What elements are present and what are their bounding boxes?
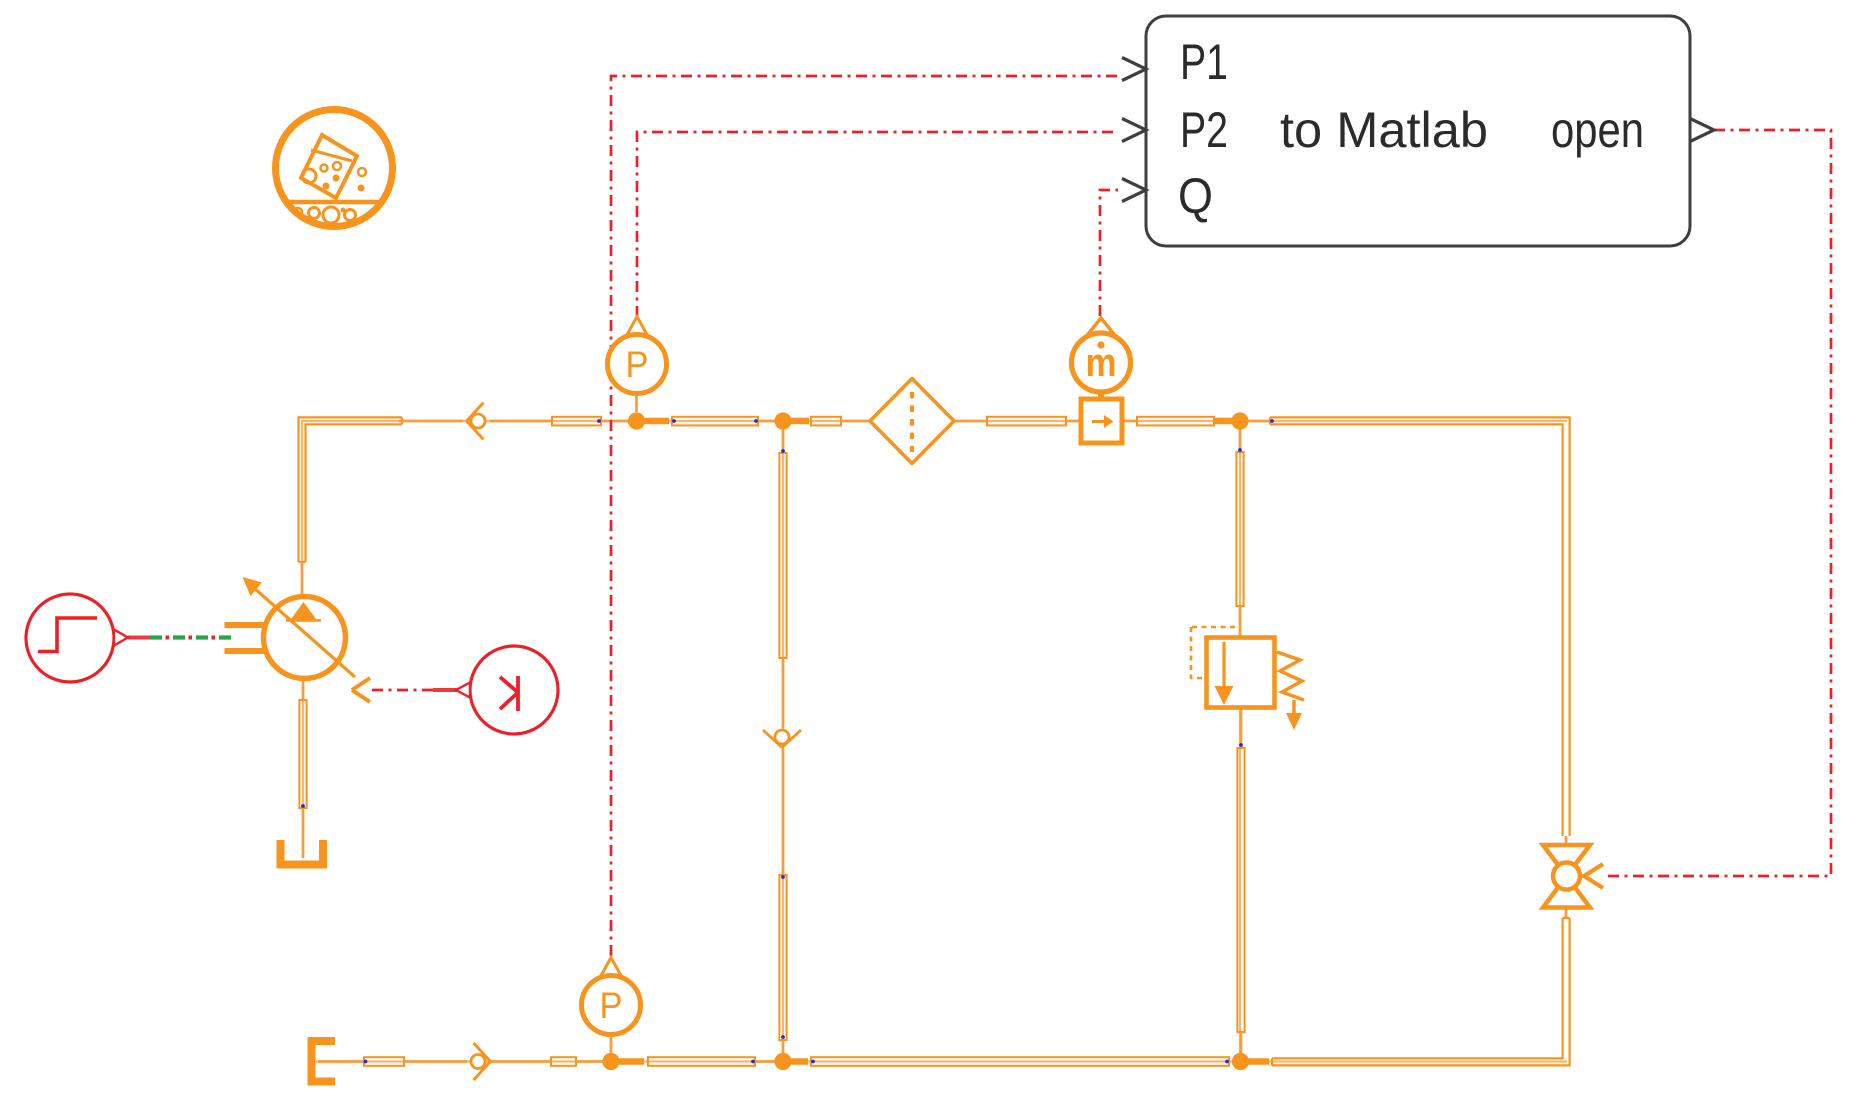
- port dot pump suction: [301, 804, 305, 808]
- wire bottom line thin from tank: [318, 1060, 364, 1063]
- fluid properties icon: [276, 110, 393, 227]
- svg-text:to Matlab: to Matlab: [1280, 102, 1488, 158]
- wire pale centerline relief branch: [1239, 421, 1241, 1061]
- junction node bottom C: [1232, 1053, 1249, 1070]
- input arrow Q: [1122, 179, 1146, 202]
- pipe segment pump suction: [299, 700, 306, 808]
- port dot bottom long pipe right: [1225, 1060, 1229, 1064]
- wire bottom line thick bar 3: [1248, 1058, 1269, 1065]
- pipe segment relief branch lower: [1237, 748, 1244, 1032]
- check valve symbol on top line: [467, 403, 486, 440]
- svg-text:open: open: [1551, 102, 1644, 158]
- wire relief branch stem below top junction: [1239, 429, 1242, 452]
- wire top line thick bar 1: [643, 418, 669, 425]
- wire top line thin segment I: [1247, 420, 1269, 423]
- port dot bottom long pipe left: [811, 1060, 815, 1064]
- port dot top line pipe1 right: [597, 419, 601, 423]
- svg-text:P1: P1: [1180, 34, 1228, 90]
- port dot bottom line pipe3 right: [751, 1060, 755, 1064]
- svg-text:Q: Q: [1178, 168, 1213, 224]
- tank below pump: [281, 840, 324, 865]
- wire pale centerline bottom run: [316, 1060, 1567, 1062]
- wire pump outlet thin to pump: [301, 562, 304, 599]
- port dot middle branch pipe lower top: [781, 875, 785, 879]
- step source block: [26, 594, 128, 682]
- pipe segment middle branch lower: [779, 875, 786, 1040]
- pressure sensor P1 (top): [608, 317, 667, 413]
- junction node top B: [774, 412, 791, 429]
- input arrow P1: [1122, 58, 1146, 81]
- wire middle branch thin bottom: [782, 1040, 785, 1055]
- to Matlab scope block body: [1146, 16, 1690, 246]
- wire signal step to pump green dash: [150, 635, 232, 639]
- output arrow open: [1690, 119, 1714, 142]
- flow rate sensor circle m-dot: [1072, 318, 1131, 392]
- input arrow P2: [1122, 119, 1146, 142]
- pressure sensor P2 (bottom): [582, 958, 641, 1054]
- wire signal K constant to pump red dash-dot: [372, 689, 433, 692]
- wire middle branch thin below check valve: [782, 748, 785, 875]
- port dot top line pipe2 right: [754, 419, 758, 423]
- wire top line thick bar 3: [1214, 418, 1234, 425]
- wire pale centerline top run: [302, 421, 1567, 594]
- wire signal P2 (top pressure sensor to block) red dash-dot: [637, 132, 1118, 317]
- pipe segment bottom line 1: [364, 1057, 404, 1066]
- wire pale centerline middle branch: [782, 421, 784, 1061]
- port dot relief branch top: [1238, 448, 1242, 452]
- pipe segment bottom line 4 long: [811, 1057, 1229, 1066]
- wire pump suction thin into tank: [302, 808, 305, 858]
- junction node bottom A: [602, 1053, 619, 1070]
- wire top-right L-pipe to right column: [1270, 417, 1570, 836]
- pipe segment top line 5: [1137, 417, 1214, 426]
- wire top line thin segment C: [601, 420, 629, 423]
- svg-text:P: P: [600, 985, 623, 1026]
- wire relief branch thin below valve: [1240, 707, 1243, 748]
- flow rate sensor box with arrow: [1081, 390, 1122, 443]
- port dot middle branch top: [781, 449, 785, 453]
- pipe segment top line 1: [552, 417, 601, 426]
- wire pump suction thin upper: [302, 678, 305, 700]
- wire top line thin segment E: [841, 420, 870, 423]
- junction node top C: [1231, 412, 1248, 429]
- wire top line thin segment D: [758, 420, 776, 423]
- pipe segment middle branch upper: [779, 453, 786, 658]
- wire top line thin segment H: [1121, 420, 1137, 423]
- wire bottom-right L-pipe: [1272, 918, 1570, 1065]
- pipe segment top line 3: [811, 417, 841, 426]
- check valve symbol on middle branch: [763, 730, 801, 748]
- check valve symbol on bottom line: [471, 1043, 491, 1080]
- wire middle branch thin middle: [782, 658, 785, 728]
- wire top line thin segment B: [490, 420, 552, 423]
- wire bottom line thick bar 1: [618, 1058, 644, 1065]
- wire signal K constant solid red stub: [433, 688, 457, 692]
- wire signal Q (flow sensor to block) red dash-dot: [1100, 190, 1118, 316]
- junction node top A: [628, 412, 645, 429]
- wire bottom line thick bar 2: [790, 1058, 808, 1065]
- variable throttle valve: [1543, 845, 1603, 908]
- pressure relief valve: [1191, 627, 1304, 730]
- tank at bottom-left line end: [312, 1041, 336, 1082]
- wire bottom line thin segment D: [576, 1060, 604, 1063]
- pipe segment bottom line 3: [648, 1057, 755, 1066]
- constant K source block: [456, 646, 558, 734]
- wire top line thin segment A: [399, 420, 463, 423]
- wire signal step source solid red stub: [128, 636, 150, 640]
- wire pale centerline pump suction: [302, 678, 304, 858]
- port dot bottom line pipe1 left: [364, 1060, 368, 1064]
- wire bottom line thin segment E: [755, 1060, 776, 1063]
- port dot top line pipe2 left: [672, 419, 676, 423]
- svg-text:P: P: [626, 344, 649, 385]
- pump control arrowhead orange: [352, 678, 370, 702]
- pipe segment relief branch upper: [1236, 452, 1243, 606]
- pipe segment top line 2: [672, 417, 758, 426]
- port dot relief branch below valve: [1239, 743, 1243, 747]
- filter (diamond): [870, 379, 954, 464]
- wire signal open (block output to throttle valve) red dash-dot: [1604, 130, 1831, 876]
- pipe segment bottom line 2: [551, 1057, 576, 1066]
- pipe segment top line 4: [987, 417, 1066, 426]
- wire relief branch thin to valve: [1239, 606, 1242, 638]
- wire bottom line thin segment B: [404, 1060, 467, 1063]
- wire middle branch stem below top junction: [782, 429, 785, 453]
- wire top line thick bar 2: [790, 418, 809, 425]
- port dot top-right pipe left: [1270, 419, 1274, 423]
- wire pump outlet riser L-pipe: [299, 417, 403, 562]
- junction node bottom B: [774, 1053, 791, 1070]
- wire top line thin segment G: [1066, 420, 1084, 423]
- wire top line thin segment F: [954, 420, 987, 423]
- wire signal step to pump red dots overlay: [150, 636, 232, 640]
- wire signal P1 (bottom pressure sensor to block) red dash-dot: [611, 76, 1118, 956]
- variable displacement pump P: [225, 577, 356, 679]
- wire right column thin below throttle: [1565, 907, 1568, 918]
- wire relief branch thin bottom: [1240, 1032, 1243, 1055]
- svg-text:P2: P2: [1180, 102, 1228, 158]
- wire bottom line thin segment C: [491, 1060, 551, 1063]
- wire right column thin above throttle: [1565, 836, 1568, 846]
- port dot middle branch pipe lower bottom: [781, 1035, 785, 1039]
